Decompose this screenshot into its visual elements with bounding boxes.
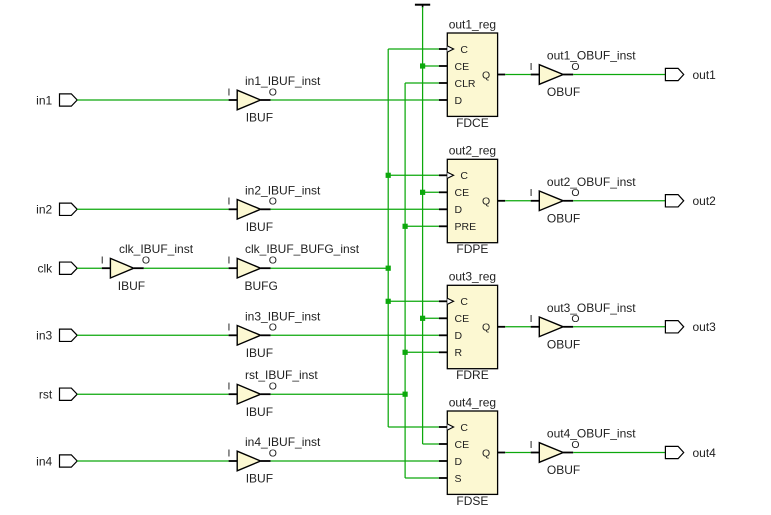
svg-text:CE: CE [455, 61, 470, 73]
buffer out3_OBUF_inst (OBUF) [530, 301, 637, 352]
wire rst_IBUF to rst net [271, 393, 406, 395]
wire in1 to IBUF [77, 99, 228, 101]
svg-text:out1_reg: out1_reg [449, 17, 496, 31]
input port in1 [36, 93, 77, 107]
svg-text:IBUF: IBUF [246, 346, 273, 360]
svg-text:FDPE: FDPE [456, 242, 488, 256]
wire clk branch to FDRE C [388, 300, 439, 302]
svg-text:in1: in1 [36, 93, 52, 107]
buffer out1_OBUF_inst (OBUF) [530, 49, 637, 100]
node clk/FDPE junction [386, 173, 391, 178]
svg-text:I: I [530, 313, 533, 325]
wire out4_reg Q to OBUF [505, 452, 531, 454]
svg-text:in4_IBUF_inst: in4_IBUF_inst [245, 435, 321, 449]
svg-text:in3_IBUF_inst: in3_IBUF_inst [245, 309, 321, 323]
svg-text:D: D [455, 456, 463, 468]
svg-text:OBUF: OBUF [547, 338, 580, 352]
input port in2 [36, 203, 77, 217]
svg-text:FDCE: FDCE [456, 116, 489, 130]
svg-text:O: O [269, 255, 277, 267]
wire OBUF to port out1 [573, 74, 665, 76]
svg-text:O: O [571, 61, 579, 73]
svg-text:CLR: CLR [455, 78, 476, 90]
buffer out4_OBUF_inst (OBUF) [530, 427, 637, 478]
node clk input junction [386, 266, 391, 271]
wire clk branch to FDSE C [388, 426, 439, 428]
svg-text:PRE: PRE [455, 221, 477, 233]
svg-text:Q: Q [482, 69, 490, 81]
wire out1_reg Q to OBUF [505, 74, 531, 76]
svg-text:out3: out3 [693, 320, 717, 334]
buffer clk_IBUF_inst (IBUF) [101, 242, 194, 293]
svg-text:FDSE: FDSE [456, 494, 488, 508]
wire OBUF to port out2 [573, 200, 665, 202]
buffer in2_IBUF_inst (IBUF) [228, 183, 321, 234]
svg-text:IBUF: IBUF [246, 405, 273, 419]
svg-text:CE: CE [455, 187, 470, 199]
svg-text:O: O [571, 439, 579, 451]
svg-text:out4_reg: out4_reg [449, 395, 496, 409]
input port in3 [36, 329, 77, 343]
node vcc/FDRE junction [420, 316, 425, 321]
svg-text:O: O [269, 196, 277, 208]
wire rst net vertical [404, 83, 406, 478]
svg-text:out1_OBUF_inst: out1_OBUF_inst [547, 49, 636, 63]
wire out2_reg Q to OBUF [505, 200, 531, 202]
svg-text:S: S [455, 473, 462, 485]
flip-flop out1_reg (FDCE) [439, 17, 505, 129]
svg-text:O: O [269, 447, 277, 459]
wire vcc branch to FDPE CE [423, 191, 439, 193]
svg-text:clk: clk [38, 262, 54, 276]
svg-text:in2: in2 [36, 203, 52, 217]
output port out2 [665, 194, 716, 208]
buffer out2_OBUF_inst (OBUF) [530, 175, 637, 226]
svg-text:out2_reg: out2_reg [449, 144, 496, 158]
wire vcc net vertical [422, 7, 424, 444]
node rst/FDRE junction [403, 350, 408, 355]
svg-text:IBUF: IBUF [246, 472, 273, 486]
svg-text:I: I [228, 255, 231, 267]
wire clk net vertical [387, 49, 389, 427]
output port out1 [665, 68, 716, 82]
svg-text:out1: out1 [693, 68, 717, 82]
svg-text:C: C [460, 422, 468, 434]
svg-text:C: C [460, 170, 468, 182]
svg-text:CE: CE [455, 313, 470, 325]
svg-text:I: I [228, 381, 231, 393]
svg-text:rst_IBUF_inst: rst_IBUF_inst [245, 368, 318, 382]
svg-text:IBUF: IBUF [118, 279, 145, 293]
buffer clk_IBUF_BUFG_inst (BUFG) [228, 242, 360, 293]
wire in3_IBUF to D pin [271, 334, 439, 336]
vcc const1 tie [415, 4, 430, 8]
flip-flop out4_reg (FDSE) [439, 395, 505, 507]
input port rst [39, 388, 77, 402]
svg-text:O: O [571, 187, 579, 199]
output port out4 [665, 446, 716, 460]
buffer in3_IBUF_inst (IBUF) [228, 309, 321, 360]
svg-text:D: D [455, 204, 463, 216]
buffer in4_IBUF_inst (IBUF) [228, 435, 321, 486]
svg-text:I: I [101, 255, 104, 267]
svg-text:clk_IBUF_inst: clk_IBUF_inst [119, 242, 194, 256]
svg-text:in2_IBUF_inst: in2_IBUF_inst [245, 183, 321, 197]
svg-text:C: C [460, 44, 468, 56]
wire vcc branch to FDSE CE [423, 443, 439, 445]
svg-text:Q: Q [482, 322, 490, 334]
input port clk [38, 262, 78, 276]
wire OBUF to port out4 [573, 452, 665, 454]
wire clk branch to FDPE C [388, 174, 439, 176]
svg-text:out4: out4 [693, 446, 717, 460]
wire in1_IBUF to D pin [271, 99, 439, 101]
node vcc/FDCE junction [420, 63, 425, 68]
wire rst to IBUF [77, 393, 228, 395]
svg-text:I: I [228, 86, 231, 98]
svg-text:in3: in3 [36, 329, 52, 343]
wire in2 to IBUF [77, 208, 228, 210]
wire in2_IBUF to D pin [271, 208, 439, 210]
node rst/FDPE junction [403, 224, 408, 229]
wire in4_IBUF to D pin [271, 460, 439, 462]
svg-text:clk_IBUF_BUFG_inst: clk_IBUF_BUFG_inst [245, 242, 360, 256]
svg-text:O: O [269, 381, 277, 393]
svg-text:out2_OBUF_inst: out2_OBUF_inst [547, 175, 636, 189]
svg-text:Q: Q [482, 447, 490, 459]
buffer in1_IBUF_inst (IBUF) [228, 74, 321, 125]
svg-text:out2: out2 [693, 194, 717, 208]
svg-text:OBUF: OBUF [547, 85, 580, 99]
input port in4 [36, 454, 77, 468]
svg-text:I: I [530, 187, 533, 199]
flip-flop out3_reg (FDRE) [439, 270, 505, 382]
svg-text:I: I [228, 196, 231, 208]
svg-text:D: D [455, 95, 463, 107]
svg-text:out4_OBUF_inst: out4_OBUF_inst [547, 427, 636, 441]
wire out3_reg Q to OBUF [505, 326, 531, 328]
wire rst branch to FDCE CLR [405, 82, 439, 84]
wire vcc branch to FDRE CE [423, 317, 439, 319]
svg-text:out3_reg: out3_reg [449, 270, 496, 284]
svg-text:IBUF: IBUF [246, 111, 273, 125]
svg-text:Q: Q [482, 196, 490, 208]
svg-text:rst: rst [39, 388, 53, 402]
wire clk_IBUF to BUFG [144, 267, 229, 269]
node clk/FDRE junction [386, 299, 391, 304]
buffer rst_IBUF_inst (IBUF) [228, 368, 319, 419]
wire clk branch to FDCE C [388, 48, 439, 50]
svg-text:out3_OBUF_inst: out3_OBUF_inst [547, 301, 636, 315]
svg-text:O: O [269, 86, 277, 98]
node rst input junction [403, 392, 408, 397]
svg-text:IBUF: IBUF [246, 220, 273, 234]
svg-text:R: R [455, 347, 463, 359]
svg-text:CE: CE [455, 439, 470, 451]
wire OBUF to port out3 [573, 326, 665, 328]
svg-text:C: C [460, 296, 468, 308]
node vcc/FDPE junction [420, 190, 425, 195]
svg-text:BUFG: BUFG [245, 279, 278, 293]
svg-text:I: I [228, 322, 231, 334]
svg-text:O: O [269, 322, 277, 334]
wire BUFG output to clk net [271, 267, 389, 269]
flip-flop out2_reg (FDPE) [439, 144, 505, 256]
wire rst branch to FDSE S [405, 477, 439, 479]
wire vcc branch to FDCE CE [423, 65, 439, 67]
wire rst branch to FDPE PRE [405, 225, 439, 227]
svg-text:D: D [455, 330, 463, 342]
svg-text:I: I [530, 439, 533, 451]
svg-text:OBUF: OBUF [547, 463, 580, 477]
svg-text:I: I [530, 61, 533, 73]
wire in4 to IBUF [77, 460, 228, 462]
wire in3 to IBUF [77, 334, 228, 336]
svg-text:O: O [142, 255, 150, 267]
svg-text:OBUF: OBUF [547, 212, 580, 226]
wire clk to IBUF [77, 267, 102, 269]
svg-text:in1_IBUF_inst: in1_IBUF_inst [245, 74, 321, 88]
output port out3 [665, 320, 716, 334]
svg-text:O: O [571, 313, 579, 325]
svg-text:FDRE: FDRE [456, 368, 489, 382]
svg-text:in4: in4 [36, 454, 52, 468]
wire rst branch to FDRE R [405, 351, 439, 353]
svg-text:I: I [228, 447, 231, 459]
